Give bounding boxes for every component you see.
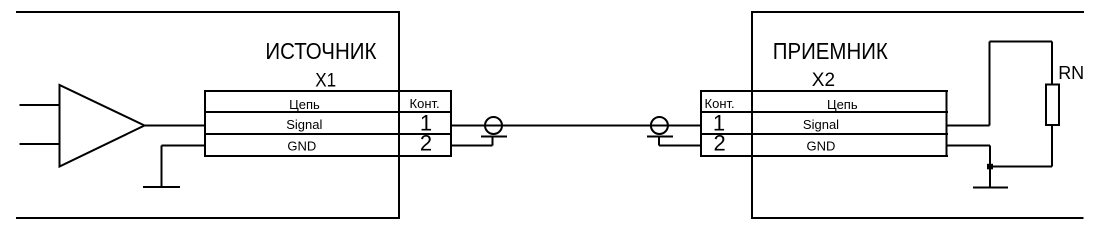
svg-text:Signal: Signal <box>286 117 322 132</box>
svg-text:Конт.: Конт. <box>705 96 735 111</box>
svg-text:X1: X1 <box>315 69 336 90</box>
svg-text:GND: GND <box>806 139 835 154</box>
svg-text:Цепь: Цепь <box>827 97 858 112</box>
svg-text:2: 2 <box>420 131 432 156</box>
svg-text:ПРИЕМНИК: ПРИЕМНИК <box>773 38 888 64</box>
svg-text:Signal: Signal <box>803 117 839 132</box>
svg-text:X2: X2 <box>812 70 835 91</box>
svg-text:ИСТОЧНИК: ИСТОЧНИК <box>265 38 376 64</box>
svg-text:GND: GND <box>287 139 316 154</box>
svg-text:Цепь: Цепь <box>289 97 320 112</box>
svg-text:RN: RN <box>1058 63 1084 83</box>
svg-text:Конт.: Конт. <box>410 96 440 111</box>
svg-text:2: 2 <box>713 131 725 156</box>
